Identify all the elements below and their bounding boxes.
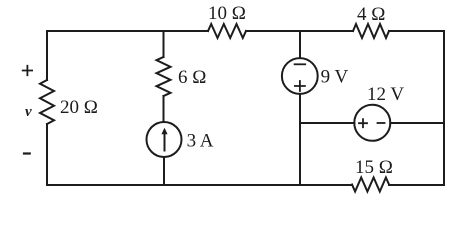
wire right side — [443, 31, 445, 185]
resistor R 4ohm — [353, 24, 389, 38]
svg-text:9 V: 9 V — [321, 67, 349, 88]
wire 12V branch left — [300, 122, 354, 124]
svg-text:10 Ω: 10 Ω — [208, 3, 246, 24]
svg-text:6 Ω: 6 Ω — [178, 67, 206, 88]
svg-text:15 Ω: 15 Ω — [355, 157, 393, 178]
plus polarity mark left — [23, 66, 32, 75]
plus sign inside 9V source — [295, 81, 305, 91]
svg-text:v: v — [25, 104, 32, 120]
wire 3A source to bottom — [163, 157, 165, 185]
voltage source V 9V circle — [282, 58, 318, 94]
resistor R 20ohm — [40, 80, 54, 124]
wire 10ohm to 4ohm — [246, 30, 353, 32]
arrow of 3A current source — [164, 134, 166, 151]
wire 4ohm to top-right corner — [389, 30, 444, 32]
minus polarity mark left — [24, 152, 30, 154]
wire middle branch upper — [163, 31, 165, 57]
wire left side upper — [46, 31, 48, 80]
wire 12V branch right — [390, 122, 444, 124]
wire bottom left of 15ohm — [47, 184, 352, 186]
svg-text:12 V: 12 V — [367, 84, 404, 105]
minus sign inside 9V source — [295, 63, 306, 65]
wire 9V branch upper — [299, 31, 301, 58]
voltage source V 12V circle — [354, 105, 390, 141]
current source I 3A circle — [147, 122, 182, 157]
minus sign inside 12V source — [378, 122, 385, 124]
wire top-left to 10ohm — [47, 30, 208, 32]
wire bottom right of 15ohm — [389, 184, 444, 186]
svg-text:20 Ω: 20 Ω — [60, 97, 98, 118]
resistor R 10ohm — [208, 24, 246, 38]
wire left side lower — [46, 124, 48, 185]
svg-text:4 Ω: 4 Ω — [357, 4, 385, 25]
resistor R 6ohm — [157, 57, 171, 96]
wire 9V source down to bottom — [299, 94, 301, 185]
wire 6ohm to 3A source — [163, 96, 165, 122]
svg-text:3 A: 3 A — [187, 131, 214, 152]
resistor R 15ohm — [352, 178, 389, 192]
plus sign inside 12V source — [359, 119, 367, 127]
